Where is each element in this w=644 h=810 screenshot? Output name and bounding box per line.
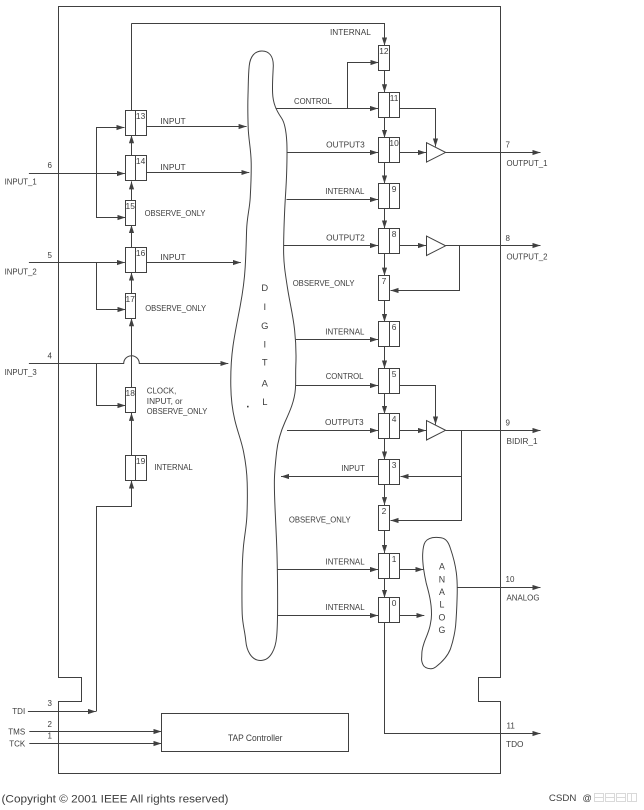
analog core blob [422, 537, 458, 668]
svg-text:OUTPUT2: OUTPUT2 [326, 234, 365, 243]
wire pin5 INPUT_2 to cell16 [29, 262, 125, 264]
svg-text:A: A [262, 377, 269, 388]
wire scan: cell19 to 18 [131, 413, 133, 456]
svg-text:5: 5 [392, 369, 397, 379]
wire cell11 control to buffer B1 enable [400, 109, 436, 147]
svg-text:17: 17 [126, 294, 136, 304]
svg-text:INTERNAL: INTERNAL [330, 28, 371, 37]
wire cell16 output to digital core [146, 262, 241, 264]
wire INTERNAL to cell0 [278, 615, 379, 617]
svg-text:OBSERVE_ONLY: OBSERVE_ONLY [145, 209, 207, 218]
wire scan: cell1 to cell0 [384, 578, 386, 598]
svg-text:OUTPUT3: OUTPUT3 [326, 141, 365, 150]
wire scan: cell12 to cell11 [384, 71, 386, 93]
svg-text:OBSERVE_ONLY: OBSERVE_ONLY [147, 407, 208, 416]
svg-text:G: G [261, 320, 268, 331]
svg-text:A: A [439, 562, 445, 572]
svg-text:4: 4 [48, 352, 53, 361]
wire cell4 to buffer B3 [400, 430, 426, 432]
svg-text:A: A [439, 587, 445, 597]
svg-text:CLOCK,: CLOCK, [147, 387, 177, 396]
svg-text:I: I [263, 301, 266, 312]
svg-text:INTERNAL: INTERNAL [325, 328, 365, 337]
wire cell14 output to digital core [146, 172, 249, 174]
wire buffer B2 to pin8 OUTPUT_2 [446, 245, 541, 247]
wire buffer B3 to pin9 BIDIR_1 [446, 430, 541, 432]
svg-text:INPUT: INPUT [160, 117, 185, 126]
svg-text:(Copyright © 2001 IEEE All rig: (Copyright © 2001 IEEE All rights reserv… [2, 794, 229, 806]
svg-text:OUTPUT3: OUTPUT3 [325, 418, 364, 427]
boundary-scan cell 18 (CLOCK,INPUT,or OBSERVE_ONLY) [126, 388, 136, 413]
ANALOG core vertical label [438, 562, 445, 635]
boundary-scan cell 15 (OBSERVE_ONLY) [126, 201, 136, 226]
wire BIDIR feedback to cell3 [401, 431, 462, 477]
boundary-scan cell 17 (OBSERVE_ONLY) [126, 294, 136, 319]
svg-text:14: 14 [136, 156, 146, 166]
svg-text:D: D [261, 282, 268, 293]
svg-text:4: 4 [392, 414, 397, 424]
boundary-scan cell 3 (INPUT) [379, 460, 400, 485]
wire INTERNAL to cell9 [287, 199, 379, 201]
wire cell8 to buffer B2 [400, 245, 426, 247]
wire scan: TDI riser to cell19 [97, 481, 132, 712]
boundary-scan cell 13 (INPUT) [126, 111, 147, 136]
svg-text:10: 10 [506, 575, 515, 584]
svg-text:CONTROL: CONTROL [326, 372, 364, 381]
svg-text:@: @ [583, 793, 592, 803]
wire scan: cell10 to cell9 [384, 163, 386, 184]
boundary-scan cell 0 (INTERNAL) [379, 598, 400, 623]
wire scan: cell3 to cell2 [384, 484, 386, 505]
wire pin6 INPUT_1 to cell14 [29, 173, 125, 175]
svg-text:INPUT: INPUT [341, 464, 365, 473]
output buffer B2 (OUTPUT_2) [427, 236, 446, 255]
wire cell0 to analog core [400, 615, 425, 617]
wire INTERNAL to cell1 [278, 569, 379, 571]
chip boundary border with TDI/TDO notches [59, 7, 501, 774]
svg-text:10: 10 [389, 138, 399, 148]
wire OUTPUT_2 feedback to cell7 [391, 246, 460, 291]
svg-text:L: L [439, 600, 444, 610]
wire scan: cell16 to 15 [131, 225, 133, 248]
svg-text:T: T [262, 357, 268, 368]
boundary-scan cell 9 (INTERNAL) [379, 184, 400, 209]
wire scan: cell14 to 13 [131, 135, 133, 156]
boundary-scan cell 5 (CONTROL) [379, 369, 400, 394]
wire cell13 output to digital core [146, 126, 246, 128]
wire pin4 INPUT_3 to digital core (with hop over scan path) [29, 356, 228, 364]
wire scan: cell8 to cell7 [384, 253, 386, 275]
svg-text:TAP Controller: TAP Controller [228, 733, 283, 743]
svg-text:16: 16 [136, 248, 146, 258]
wire scan: cell13 top to top rail [131, 23, 133, 110]
svg-text:INPUT_2: INPUT_2 [5, 267, 38, 276]
svg-text:ANALOG: ANALOG [507, 594, 540, 603]
wire OUTPUT3 to cell4 [287, 430, 378, 432]
boundary-scan cell 10 (OUTPUT3) [379, 138, 400, 163]
svg-text:INTERNAL: INTERNAL [325, 187, 365, 196]
svg-text:15: 15 [126, 201, 136, 211]
wire INPUT_1 branch up to cell13 [97, 128, 125, 174]
svg-text:3: 3 [392, 460, 397, 470]
wire scan: cell0 to TDO pin 11 [385, 623, 541, 734]
svg-text:19: 19 [136, 456, 146, 466]
svg-text:TDI: TDI [12, 707, 25, 716]
svg-text:TMS: TMS [8, 728, 25, 737]
svg-text:L: L [262, 396, 267, 407]
svg-text:CONTROL: CONTROL [294, 97, 332, 106]
wire CONTROL branch to cell12 side [348, 63, 379, 109]
wire cell1 to analog core [400, 569, 424, 571]
svg-text:13: 13 [136, 111, 146, 121]
svg-text:CSDN: CSDN [549, 793, 577, 803]
boundary-scan cell 1 (INTERNAL) [379, 554, 400, 579]
wire cell10 to buffer B1 [400, 152, 426, 154]
svg-text:INPUT_3: INPUT_3 [5, 368, 38, 377]
svg-text:OBSERVE_ONLY: OBSERVE_ONLY [145, 304, 207, 313]
svg-text:18: 18 [126, 388, 136, 398]
wire scan: cell18 to 17 [131, 318, 133, 388]
wire BIDIR feedback to cell2 [391, 477, 462, 521]
wire INPUT_3 branch down to cell18 [97, 364, 126, 406]
wire analog core to pin10 ANALOG [457, 587, 540, 589]
boundary-scan cell 2 (OBSERVE_ONLY) [379, 506, 390, 531]
svg-text:OUTPUT_2: OUTPUT_2 [507, 252, 549, 261]
boundary-scan cell 7 (OBSERVE_ONLY) [379, 276, 390, 301]
svg-text:I: I [263, 338, 266, 349]
svg-text:0: 0 [392, 598, 397, 608]
svg-text:G: G [438, 625, 445, 635]
wire CONTROL to cell5 [296, 385, 378, 387]
TAP controller box U-TAP [162, 714, 349, 752]
svg-text:2: 2 [48, 720, 53, 729]
wire scan: cell15 to 14 [131, 181, 133, 200]
digital core blob [231, 51, 296, 661]
svg-text:1: 1 [392, 554, 397, 564]
boundary-scan cell 14 (INPUT) [126, 156, 147, 181]
svg-text:9: 9 [392, 184, 397, 194]
wire scan: cell4 to cell3 [384, 439, 386, 460]
wire INPUT_2 branch down to cell17 [97, 263, 126, 310]
svg-text:2: 2 [382, 506, 387, 516]
wire scan: cell9 to cell8 [384, 209, 386, 229]
wire pin3 TDI [28, 711, 96, 713]
svg-text:8: 8 [392, 229, 397, 239]
svg-text:11: 11 [507, 722, 516, 731]
svg-text:5: 5 [48, 251, 53, 260]
svg-text:N: N [439, 574, 445, 584]
wire OUTPUT2 to cell8 [284, 245, 378, 247]
svg-text:OBSERVE_ONLY: OBSERVE_ONLY [293, 279, 355, 288]
svg-text:9: 9 [506, 418, 511, 427]
boundary-scan cell 12 (INTERNAL) [379, 46, 390, 71]
period mark in digital blob [247, 406, 249, 408]
wire scan: cell11 to cell10 [384, 117, 386, 138]
svg-text:TDO: TDO [506, 740, 524, 749]
boundary-scan cell 8 (OUTPUT2) [379, 229, 400, 254]
wire INTERNAL to cell6 [296, 339, 378, 341]
watermark CSDN [549, 793, 637, 803]
svg-text:7: 7 [506, 140, 511, 149]
svg-text:INTERNAL: INTERNAL [154, 463, 193, 472]
wire scan: cell2 to cell1 [384, 530, 386, 553]
wire cell3 INPUT into digital core [281, 476, 379, 478]
wire cell5 control to buffer B3 enable [400, 386, 436, 425]
svg-text:8: 8 [506, 234, 511, 243]
output buffer B1 (OUTPUT_1) [427, 143, 446, 162]
wire scan: cell17 to 16 [131, 273, 133, 294]
svg-text:6: 6 [392, 322, 397, 332]
svg-text:3: 3 [48, 699, 53, 708]
boundary-scan cell 16 (INPUT) [126, 248, 147, 273]
svg-text:6: 6 [48, 161, 53, 170]
boundary-scan cell 11 (CONTROL) [379, 93, 400, 118]
wire buffer B1 to pin7 OUTPUT_1 [446, 152, 541, 154]
wire CONTROL to cell11 [276, 108, 379, 110]
boundary-scan cell 6 (INTERNAL) [379, 322, 400, 347]
boundary-scan cell 4 (OUTPUT3) [379, 414, 400, 439]
label CLOCK, INPUT, or OBSERVE_ONLY cell18 [147, 387, 208, 416]
svg-text:12: 12 [379, 46, 389, 56]
wire pin1 TCK to TAP [29, 743, 161, 745]
svg-text:INPUT: INPUT [160, 163, 185, 172]
wire scan top rail into cell12 [132, 24, 385, 46]
svg-text:7: 7 [382, 276, 387, 286]
svg-text:INTERNAL: INTERNAL [326, 557, 366, 566]
output buffer B3 (BIDIR_1) [427, 421, 446, 440]
svg-text:11: 11 [390, 93, 399, 103]
wire INPUT_1 branch down to cell15 [97, 174, 126, 218]
svg-text:INPUT_1: INPUT_1 [5, 178, 38, 187]
wire scan: cell6 to cell5 [384, 347, 386, 369]
wire scan: cell5 to cell4 [384, 393, 386, 414]
svg-text:OUTPUT_1: OUTPUT_1 [507, 159, 549, 168]
DIGITAL core vertical label [261, 282, 269, 407]
wire OUTPUT3 to cell10 [287, 152, 378, 154]
svg-text:TCK: TCK [9, 740, 26, 749]
wire scan: cell7 to cell6 [384, 301, 386, 322]
svg-text:OBSERVE_ONLY: OBSERVE_ONLY [289, 515, 351, 524]
svg-text:INPUT, or: INPUT, or [147, 397, 183, 406]
svg-text:INPUT: INPUT [160, 253, 185, 262]
wire pin2 TMS to TAP [29, 731, 161, 733]
boundary-scan cell 19 (INTERNAL) [126, 456, 147, 481]
svg-text:1: 1 [48, 732, 53, 741]
svg-text:INTERNAL: INTERNAL [326, 603, 366, 612]
svg-text:O: O [438, 612, 445, 622]
svg-text:BIDIR_1: BIDIR_1 [507, 437, 539, 446]
